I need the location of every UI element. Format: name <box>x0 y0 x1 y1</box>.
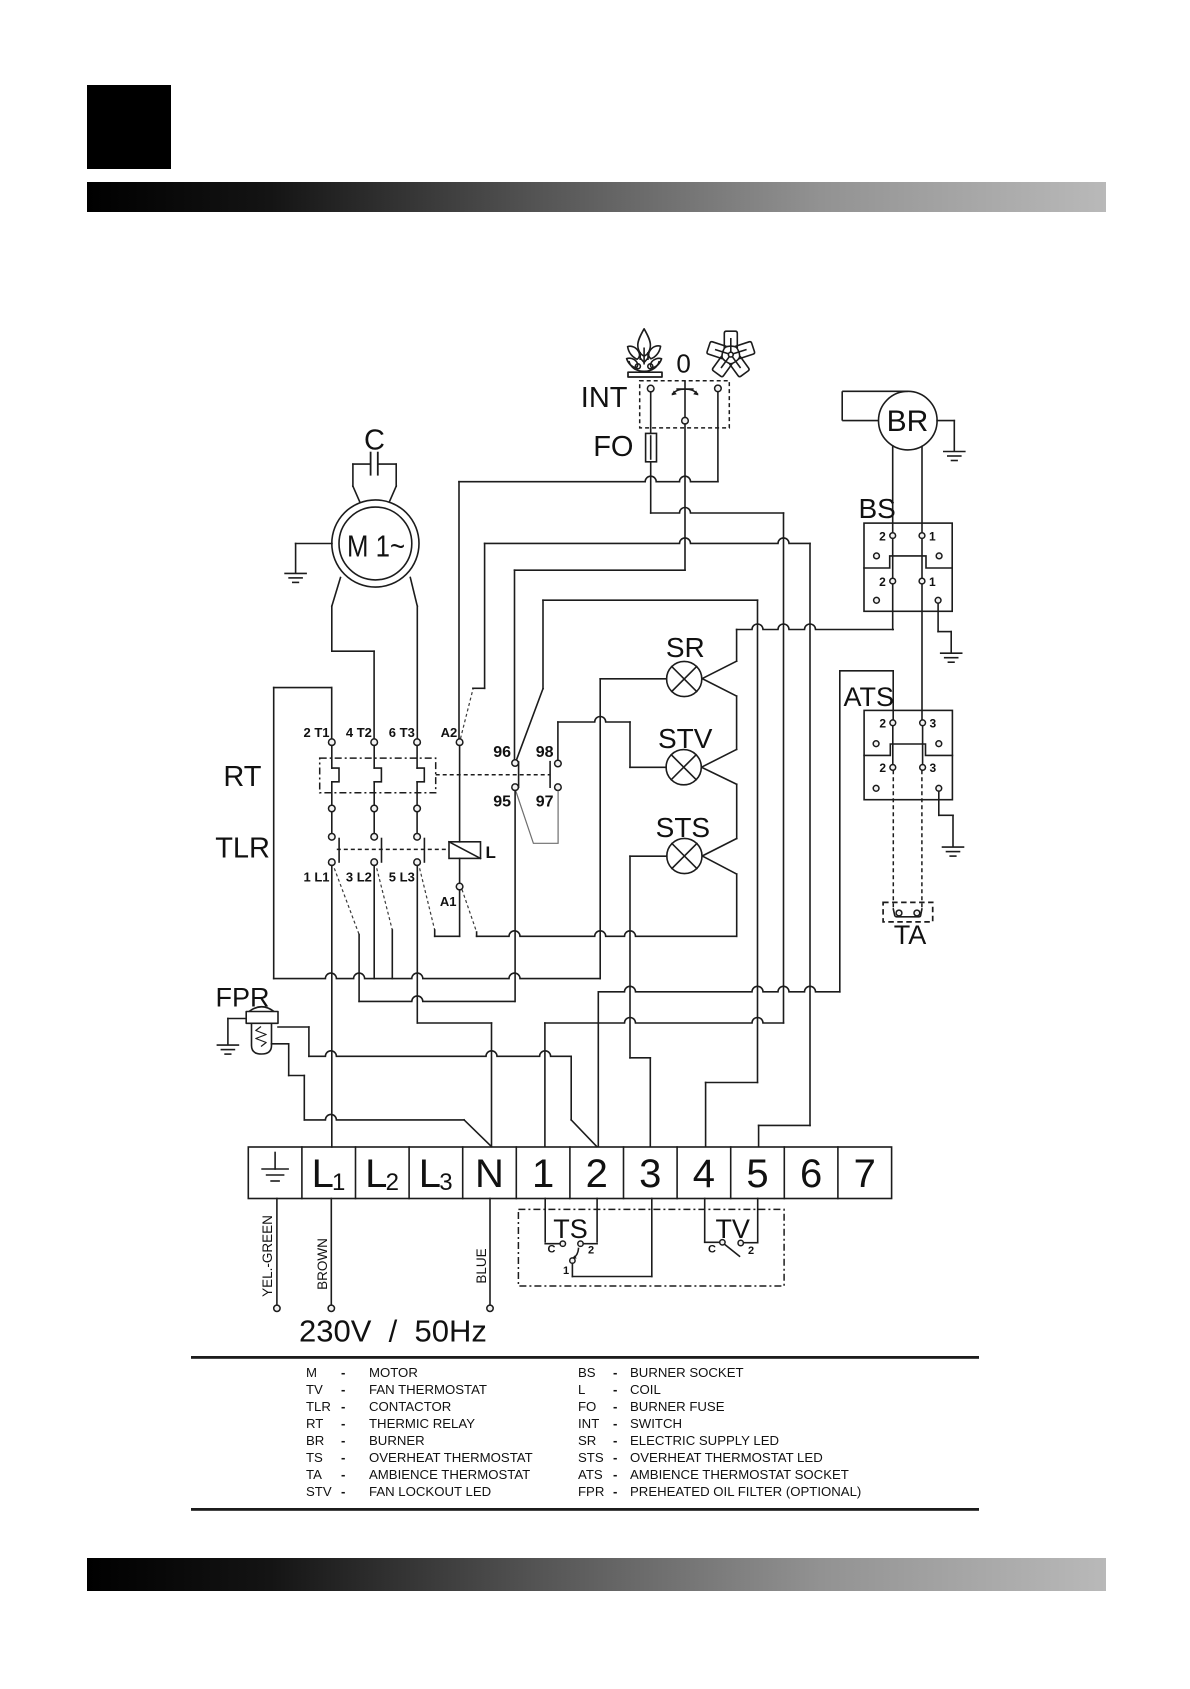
aux 95-97 bridge <box>516 791 558 844</box>
svg-text:-: - <box>341 1467 345 1482</box>
wire: L3 pole down, jog to terminal N <box>416 866 418 1024</box>
svg-text:1: 1 <box>929 575 936 589</box>
svg-text:YEL.-GREEN: YEL.-GREEN <box>260 1215 275 1297</box>
svg-text:1 L1: 1 L1 <box>303 870 329 885</box>
wire: STS to terminal 3 <box>629 856 631 1058</box>
motor leg to T3 <box>410 578 417 607</box>
svg-text:L: L <box>312 1152 334 1196</box>
svg-text:-: - <box>341 1382 345 1397</box>
wire row: y543 (A2 aux to V810) <box>485 538 810 543</box>
RT trip link (dash-dot) <box>436 774 550 776</box>
svg-text:PREHEATED OIL FILTER (OPTIONAL: PREHEATED OIL FILTER (OPTIONAL) <box>630 1484 861 1499</box>
BS pins <box>890 533 896 539</box>
svg-text:-: - <box>613 1484 617 1499</box>
svg-text:FPR: FPR <box>578 1484 604 1499</box>
FPR ground <box>228 1018 246 1020</box>
header black square <box>87 85 171 169</box>
svg-text:TS: TS <box>306 1450 323 1465</box>
svg-text:5: 5 <box>746 1152 768 1196</box>
svg-text:2 T1: 2 T1 <box>303 725 329 740</box>
wire: V757.5 down to terminal 4 <box>757 600 759 1082</box>
wires inside BS <box>892 539 894 579</box>
wire: STV left <box>630 766 666 768</box>
thermal relay RT box <box>320 758 436 793</box>
svg-text:TLR: TLR <box>215 833 270 865</box>
svg-text:RT: RT <box>223 761 261 793</box>
svg-text:-: - <box>341 1399 345 1414</box>
wire: V484.6 down to A2 blade link <box>484 543 486 688</box>
svg-text:TA: TA <box>306 1467 322 1482</box>
wire: L1 pole down to terminal L1 <box>331 866 333 1148</box>
svg-text:L: L <box>578 1382 585 1397</box>
dashed box TS/TV <box>518 1209 784 1286</box>
svg-text:ELECTRIC SUPPLY LED: ELECTRIC SUPPLY LED <box>630 1433 779 1448</box>
RT aux contact 95 <box>512 784 519 791</box>
wire row h3 (blade1 to 95, y1001.4) <box>359 996 515 1001</box>
svg-text:L: L <box>365 1152 387 1196</box>
wire row: terminal1 feeder (y1023) <box>545 1018 784 1024</box>
TLR actuator dashed link <box>337 848 449 850</box>
svg-text:-: - <box>613 1433 617 1448</box>
svg-text:4 T2: 4 T2 <box>346 725 372 740</box>
A1 blade (dashed) <box>462 890 477 933</box>
svg-text:M: M <box>306 1365 317 1380</box>
svg-text:C: C <box>364 425 385 457</box>
ATS right pin to ground <box>938 791 940 815</box>
BS right pin to ground <box>937 603 939 631</box>
svg-text:TA: TA <box>894 920 927 950</box>
svg-text:6 T3: 6 T3 <box>389 725 415 740</box>
svg-text:AMBIENCE THERMOSTAT: AMBIENCE THERMOSTAT <box>369 1467 530 1482</box>
wire: BR to BS pin2 <box>892 446 894 533</box>
svg-text:98: 98 <box>536 744 554 761</box>
RT/TLR pole 4 T2 <box>371 739 378 746</box>
svg-text:2: 2 <box>879 761 886 775</box>
wires inside ATS <box>892 726 894 765</box>
INT selector arc arrows <box>673 389 698 394</box>
aux blade ticks <box>518 762 520 787</box>
svg-text:230V / 50Hz: 230V / 50Hz <box>299 1314 487 1349</box>
svg-text:FO: FO <box>578 1399 596 1414</box>
svg-text:MOTOR: MOTOR <box>369 1365 418 1380</box>
svg-text:BR: BR <box>887 405 929 438</box>
earth symbol in terminal strip <box>262 1153 288 1182</box>
wire: 98 up-link <box>557 722 559 760</box>
INT fan-side contact pin <box>715 385 722 392</box>
svg-text:-: - <box>613 1365 617 1380</box>
svg-text:-: - <box>613 1399 617 1414</box>
FPR wire B to terminal N <box>272 1043 289 1045</box>
wire: V514.5 down to contact 96 <box>514 570 516 759</box>
TLR pole blade tick 1 <box>338 839 340 863</box>
svg-text:3: 3 <box>439 1169 452 1196</box>
svg-text:0: 0 <box>676 349 690 379</box>
legend rules <box>191 1356 979 1359</box>
wire: INT flame pin down to fuse <box>650 392 652 434</box>
wire: fuse to row 513 <box>650 462 652 513</box>
svg-text:2: 2 <box>386 1169 399 1196</box>
svg-text:-: - <box>341 1365 345 1380</box>
svg-text:FO: FO <box>593 431 633 463</box>
svg-text:FPR: FPR <box>216 983 270 1013</box>
switch INT (dashed box) <box>640 381 730 428</box>
svg-text:BROWN: BROWN <box>315 1238 330 1290</box>
motor leg to T2 <box>332 578 341 607</box>
A2 blade (dashed) <box>461 689 474 739</box>
TV blade <box>725 1245 740 1257</box>
svg-text:97: 97 <box>536 794 554 811</box>
TS contact 1 to terminal 3 <box>571 1263 573 1276</box>
svg-text:INT: INT <box>581 382 628 414</box>
wire: SR to row h2 <box>599 679 601 979</box>
RT aux contact 97 <box>555 784 562 791</box>
svg-text:BR: BR <box>306 1433 324 1448</box>
svg-text:-: - <box>341 1484 345 1499</box>
svg-text:A2: A2 <box>441 725 458 740</box>
BR ground <box>937 420 954 422</box>
svg-text:C: C <box>708 1244 716 1256</box>
TLR blade 2 <box>377 868 393 930</box>
wire: V810 down to terminal 5 <box>809 543 811 1125</box>
wire: STV right diagonals <box>702 749 737 767</box>
wire row h2 (T1 circuit, y978.6) <box>274 973 601 978</box>
svg-text:BLUE: BLUE <box>474 1248 489 1283</box>
svg-text:STS: STS <box>578 1450 604 1465</box>
flame icon (burner position) <box>627 329 662 377</box>
wire: L2 pole down to row h2 <box>373 866 375 979</box>
svg-text:2: 2 <box>586 1152 608 1196</box>
supply lead blue (N) <box>489 1199 491 1306</box>
RT aux contact 96 <box>512 760 519 767</box>
svg-text:THERMIC RELAY: THERMIC RELAY <box>369 1416 475 1431</box>
wire: V545 to terminal 1 <box>544 1023 546 1147</box>
wire row: y600 (96 circuit to V757.5) <box>543 599 758 601</box>
svg-text:4: 4 <box>693 1152 715 1196</box>
svg-text:FAN LOCKOUT LED: FAN LOCKOUT LED <box>369 1484 491 1499</box>
svg-text:STV: STV <box>306 1484 332 1499</box>
svg-text:3: 3 <box>639 1152 661 1196</box>
TLR blade 3 <box>420 868 435 930</box>
svg-text:1: 1 <box>929 530 936 544</box>
svg-text:BURNER SOCKET: BURNER SOCKET <box>630 1365 744 1380</box>
svg-text:M 1~: M 1~ <box>347 529 405 564</box>
lamp SR electric supply LED <box>667 661 702 696</box>
svg-text:FAN THERMOSTAT: FAN THERMOSTAT <box>369 1382 487 1397</box>
svg-text:SR: SR <box>666 632 705 663</box>
svg-text:BURNER FUSE: BURNER FUSE <box>630 1399 725 1414</box>
wire: STV left link <box>629 722 631 767</box>
wire: SR left <box>600 678 666 680</box>
svg-text:-: - <box>613 1467 617 1482</box>
svg-text:ATS: ATS <box>578 1467 603 1482</box>
svg-text:2: 2 <box>879 530 886 544</box>
svg-text:3: 3 <box>930 717 937 731</box>
wire: INT fan pin down <box>717 392 719 482</box>
wire: 95 down to blade row <box>514 791 516 1002</box>
wire row: flame/FO circuit to V783.5 <box>651 508 784 514</box>
wire: SR right link <box>736 630 738 662</box>
fuse FO <box>646 433 657 461</box>
svg-text:OVERHEAT THERMOSTAT: OVERHEAT THERMOSTAT <box>369 1450 533 1465</box>
svg-text:SWITCH: SWITCH <box>630 1416 682 1431</box>
INT flame-side contact pin <box>647 385 654 392</box>
wire: V598 to terminal 2 <box>597 992 599 1147</box>
svg-text:-: - <box>613 1416 617 1431</box>
svg-text:A1: A1 <box>440 894 457 909</box>
svg-text:95: 95 <box>493 794 511 811</box>
INT selector post <box>684 381 686 417</box>
svg-text:STS: STS <box>656 812 710 843</box>
ATS pins <box>890 720 896 726</box>
svg-text:INT: INT <box>578 1416 599 1431</box>
wire: coil to A1 <box>459 858 461 883</box>
wire: A1 down <box>459 890 461 936</box>
svg-text:BS: BS <box>578 1365 596 1380</box>
svg-text:STV: STV <box>658 723 713 754</box>
svg-text:1: 1 <box>332 1169 345 1196</box>
svg-text:L: L <box>486 843 496 862</box>
wire: INT common pin down <box>684 424 686 570</box>
terminal strip <box>248 1147 891 1199</box>
lamp STV fan lockout LED <box>666 750 701 785</box>
svg-text:AMBIENCE THERMOSTAT SOCKET: AMBIENCE THERMOSTAT SOCKET <box>630 1467 849 1482</box>
wire: STS left <box>630 855 667 857</box>
RT/TLR pole 2 T1 <box>329 739 336 746</box>
svg-text:L: L <box>419 1152 441 1196</box>
svg-text:3 L2: 3 L2 <box>346 870 372 885</box>
wire: V459 down to contactor A2 <box>458 482 460 739</box>
svg-text:BURNER: BURNER <box>369 1433 425 1448</box>
svg-text:5 L3: 5 L3 <box>389 870 415 885</box>
coil diagonal <box>449 842 481 859</box>
svg-text:TS: TS <box>553 1214 588 1244</box>
wire: T1 bracket <box>273 688 275 979</box>
TA ambience thermostat <box>892 770 894 909</box>
wire row: fan circuit (INT right to V459) <box>459 476 718 481</box>
svg-text:TV: TV <box>306 1382 323 1397</box>
svg-text:ATS: ATS <box>844 682 895 712</box>
svg-text:-: - <box>613 1450 617 1465</box>
svg-text:-: - <box>613 1382 617 1397</box>
svg-text:2: 2 <box>879 717 886 731</box>
svg-text:COIL: COIL <box>630 1382 661 1397</box>
wire row h1 (A1/STS, y936) <box>477 931 737 936</box>
svg-text:C: C <box>548 1244 556 1256</box>
wire row: BS pin2 to lamps (y629.5) <box>737 624 894 629</box>
header gradient bar <box>87 182 1106 212</box>
svg-text:2: 2 <box>748 1245 754 1257</box>
footer gradient bar <box>87 1558 1106 1591</box>
wire: STS right diagonals <box>702 839 736 856</box>
svg-text:BS: BS <box>859 493 896 524</box>
svg-text:1: 1 <box>563 1265 569 1277</box>
svg-text:3: 3 <box>930 761 937 775</box>
wire row: terminal2 feeder (y991.8) <box>598 986 840 992</box>
wire row: zero-position to RT 96 (y570) <box>515 569 686 571</box>
wire: V783.5 down to terminal-1 row <box>783 513 785 1023</box>
lamp STS overheat thermostat LED <box>667 838 702 873</box>
svg-text:96: 96 <box>493 744 511 761</box>
wire row: 98 to STV (y722) <box>558 717 630 722</box>
burner BR <box>842 391 937 450</box>
svg-text:-: - <box>341 1416 345 1431</box>
wire: A2 to coil <box>459 746 461 842</box>
TLR pole blade tick 3 <box>423 839 425 863</box>
motor M1~ <box>332 500 419 587</box>
svg-text:1: 1 <box>532 1152 554 1196</box>
svg-text:OVERHEAT THERMOSTAT LED: OVERHEAT THERMOSTAT LED <box>630 1450 823 1465</box>
TLR pole blade tick 2 <box>381 839 383 863</box>
pin A2 <box>456 739 463 746</box>
wire: BR to BS pin1 / ATS pin3 <box>921 446 923 532</box>
RT aux contact 98 <box>555 760 562 767</box>
FPR wire A to terminal 2 <box>278 1026 309 1028</box>
motor ground <box>296 543 332 545</box>
fan icon (fan position) <box>707 331 756 377</box>
svg-text:-: - <box>341 1433 345 1448</box>
pin A1 <box>456 883 463 890</box>
svg-text:N: N <box>475 1152 504 1196</box>
svg-text:6: 6 <box>800 1152 822 1196</box>
svg-text:2: 2 <box>879 575 886 589</box>
svg-text:7: 7 <box>854 1152 876 1196</box>
svg-text:SR: SR <box>578 1433 596 1448</box>
svg-text:CONTACTOR: CONTACTOR <box>369 1399 451 1414</box>
TLR blade 1 <box>334 868 359 934</box>
svg-text:RT: RT <box>306 1416 323 1431</box>
svg-text:-: - <box>341 1450 345 1465</box>
wire: ATS pin2 riser <box>839 671 841 992</box>
svg-text:TLR: TLR <box>306 1399 331 1414</box>
INT common pin <box>682 417 689 424</box>
supply lead brown (L1) <box>330 1199 332 1306</box>
wire: V543 diagonal into 96 <box>542 600 544 688</box>
RT/TLR pole 6 T3 <box>414 739 421 746</box>
svg-text:2: 2 <box>588 1245 594 1257</box>
supply lead yellow-green <box>276 1199 278 1306</box>
